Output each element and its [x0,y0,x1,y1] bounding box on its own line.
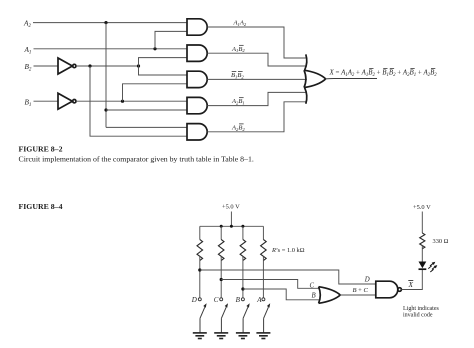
wire B2bar branch to AND gate 2 bottom input [139,58,188,66]
svg-text:A: A [256,296,262,304]
node D tap junction [198,268,201,271]
svg-text:FIGURE 8–4: FIGURE 8–4 [19,202,63,211]
svg-text:B + C: B + C [353,287,369,294]
ground symbol 1 [193,333,207,339]
inverter 2 (B1 NOT gate) [58,93,76,109]
wire OR output B+C to NAND input [340,294,376,296]
svg-text:A1A2: A1A2 [233,20,247,27]
node B2bar second junction [137,64,140,67]
wire B2bar branch to AND gate 3 top input [139,66,188,75]
resistor R2 pullup [218,226,224,297]
wire AND2 output to OR gate [207,53,306,66]
svg-text:B1B2: B1B2 [231,72,244,79]
wire B1bar branch to AND gate 3 bottom input [123,84,188,101]
resistor R4 pullup [261,226,267,297]
switch S4 contact circle [262,298,265,301]
switch S4 lever arrow [264,307,269,318]
ground symbol 3 [236,333,250,339]
svg-text:Light indicates: Light indicates [403,306,439,312]
svg-text:B: B [236,296,241,304]
wire AND4 output to OR gate [207,92,306,105]
ground symbol 2 [214,333,228,339]
wire OR gate output X [326,78,378,80]
svg-text:+5.0 V: +5.0 V [222,204,240,211]
node A2 to gate4 junction [104,108,107,111]
AND gate U1 [187,19,207,35]
wire A2 branch to AND gate 5 top input [106,126,187,128]
wire A2 vertical branch down [105,23,107,128]
svg-text:X: X [408,281,414,289]
svg-text:C: C [310,282,315,289]
svg-text:D: D [191,296,197,304]
wire Xbar output from NAND to LED branch [401,270,422,290]
wire B2bar branch to AND gate 5 bottom input [90,66,187,136]
switch S1 lever arrow [200,307,205,318]
svg-text:B2: B2 [25,63,32,73]
node rail junction R3 [241,225,244,228]
wire A1 branch to AND gate 1 bottom input [155,31,187,48]
svg-text:A2B2: A2B2 [231,124,245,131]
node C tap junction [220,278,223,281]
switch S3 lever arrow [243,307,248,318]
wire B2bar from inverter 1 to branch point [76,65,139,67]
svg-text:X = A1A2 + A1B2 + B1B2 + A2B1: X = A1A2 + A1B2 + B1B2 + A2B1 + A2B2 [329,69,438,77]
wire AND5 output to OR gate [207,102,306,132]
svg-text:+5.0 V: +5.0 V [413,204,431,211]
svg-text:A2B1: A2B1 [231,98,245,105]
svg-text:A2: A2 [23,20,31,30]
node B tap junction [241,287,244,290]
svg-text:B1: B1 [25,98,32,108]
AND gate U3 [187,71,207,87]
svg-text:R’s = 1.0 kΩ: R’s = 1.0 kΩ [271,247,305,254]
svg-text:A1B2: A1B2 [231,46,245,53]
resistor R3 pullup [240,226,246,297]
wire switch S3 to ground [242,318,244,333]
wire AND1 output to OR gate [207,27,306,58]
svg-text:D: D [364,277,370,284]
switch S1 contact circle [198,298,201,301]
ground symbol 4 [256,333,270,339]
svg-text:invalid code: invalid code [403,312,433,318]
svg-text:Circuit implementation of the: Circuit implementation of the comparator… [19,154,254,163]
wire A2 input to AND gate 1 top input [33,22,187,24]
AND gate U4 [187,97,207,113]
wire switch S2 to ground [220,318,222,333]
wire A2 branch to AND gate 4 bottom input [106,109,187,111]
node B2bar first junction [88,64,91,67]
wire B line to OR gate bottom input [243,289,320,300]
switch S2 lever arrow [221,307,226,318]
wire C line to OR gate top input [221,280,319,289]
node A1 branch junction [153,47,156,50]
wire D line to NAND gate [200,270,376,284]
wire A1 input to AND gate 2 top input [34,48,188,50]
node rail junction supply [230,225,233,228]
svg-text:A1: A1 [24,46,32,56]
LED D1 [419,262,438,273]
wire +5V stub to rail [230,212,232,227]
wire AND3 output to OR gate [207,78,307,80]
wire +5V to 330 ohm resistor [421,212,423,234]
svg-text:FIGURE 8–2: FIGURE 8–2 [19,145,63,154]
wire B2 input to inverter 1 [34,65,59,67]
switch S2 contact circle [220,298,223,301]
AND gate U5 [187,124,207,140]
resistor R5 330 ohm [420,233,425,249]
wire switch S1 to ground [199,318,201,333]
svg-text:330 Ω: 330 Ω [433,238,449,245]
wire resistor to LED anode [421,246,423,262]
nand-gate U8 [376,281,402,298]
wire switch S4 to ground [263,318,265,333]
node B1bar junction [121,100,124,103]
wire B1 input to inverter 2 [34,100,59,102]
AND gate U2 [187,45,207,61]
resistor R1 pullup [197,226,203,297]
or-gate U7 (B+C) [319,287,341,304]
or-gate U6 5-input with input extensions [304,54,326,103]
wire supply rail [200,225,264,227]
wire B1bar from inverter 2 to AND gate 4 top input [76,100,187,102]
node A2 branch junction [104,21,107,24]
svg-text:B: B [312,293,316,300]
switch S3 contact circle [241,298,244,301]
inverter 1 (B2 NOT gate) [58,58,76,74]
svg-text:C: C [214,296,219,304]
node rail junction R2 [220,225,223,228]
